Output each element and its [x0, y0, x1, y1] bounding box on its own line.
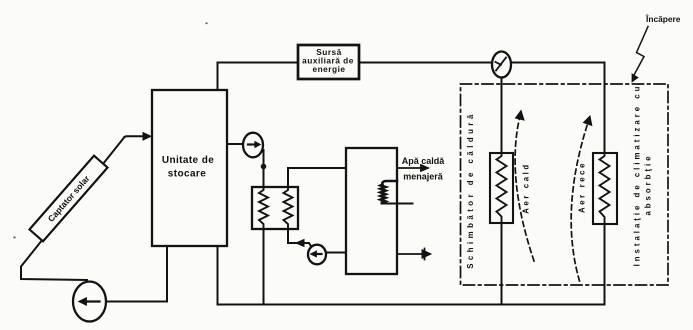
wire: exchanger right coil bottom to pump P3	[288, 229, 312, 247]
svg-text:Apă caldă: Apă caldă	[402, 156, 446, 166]
wire: aux source to valve	[359, 62, 492, 64]
wire: storage to pump P2	[227, 143, 244, 145]
tank bottom outlet arrow	[397, 253, 424, 255]
wire: cooling coil down to bus	[604, 224, 606, 305]
wire: exchanger right coil top to tank	[288, 168, 346, 187]
svg-text:Unitate de: Unitate de	[162, 155, 214, 166]
svg-text:absorbţie: absorbţie	[644, 153, 653, 215]
room boundary (dash-dot)	[461, 84, 669, 285]
room cooling coil box	[593, 153, 617, 224]
exchanger right coil zigzag	[284, 187, 293, 229]
wire: storage bottom to bus	[217, 246, 219, 305]
room heating coil box	[490, 153, 513, 223]
hot water outlet arrow	[397, 167, 424, 169]
speck	[14, 237, 16, 239]
svg-text:stocare: stocare	[168, 169, 206, 180]
warm air arc (dashed)	[515, 114, 534, 261]
svg-text:Schimbător de căldură: Schimbător de căldură	[466, 111, 475, 269]
storage unit box	[152, 90, 227, 246]
wire: P1 outlet to storage bottom	[106, 246, 167, 302]
speck	[206, 23, 208, 25]
auxiliary energy source box	[298, 45, 359, 79]
svg-text:Aer rece: Aer rece	[578, 161, 587, 213]
valve V1 (3-way)	[492, 52, 511, 78]
svg-text:Instalaţie de climatizare cu: Instalaţie de climatizare cu	[633, 84, 642, 267]
solar collector panel	[29, 156, 107, 242]
wire: bottom bus	[218, 304, 605, 306]
cool air arc (dashed)	[571, 120, 589, 282]
svg-text:energie: energie	[312, 64, 345, 74]
wire: heating coil down to bus	[501, 223, 503, 305]
collector band border	[29, 156, 107, 242]
exchanger left coil zigzag	[259, 187, 268, 229]
storage heat exchanger box	[252, 187, 298, 229]
wire: P3 to tank bottom	[326, 252, 346, 254]
wire: collector riser (slanted pipe)	[21, 137, 125, 280]
heating coil zigzag	[497, 153, 507, 223]
room label pointer (lightning leader)	[634, 27, 649, 77]
pump P3	[308, 245, 326, 265]
wire: valve to right drop	[511, 63, 605, 154]
wire: exchanger left coil to bus	[263, 229, 265, 305]
svg-text:Aer cald: Aer cald	[522, 162, 531, 214]
svg-text:Încăpere: Încăpere	[645, 13, 681, 24]
wire: valve down to heating coil	[501, 78, 503, 154]
svg-text:menajeră: menajeră	[403, 172, 444, 182]
arrow on wire	[296, 240, 304, 247]
wire: P2 outlet to exchanger	[263, 150, 265, 187]
node: junction dot	[261, 164, 267, 170]
wire: storage top to auxiliary source	[218, 63, 299, 91]
pump P2	[243, 133, 263, 158]
pump P1 (solar loop)	[73, 282, 106, 322]
hot water tank	[346, 148, 397, 274]
DHW coil inside tank	[381, 181, 398, 203]
wire: collector supply into storage with arrow	[125, 135, 147, 138]
cooling coil zigzag	[600, 153, 610, 224]
